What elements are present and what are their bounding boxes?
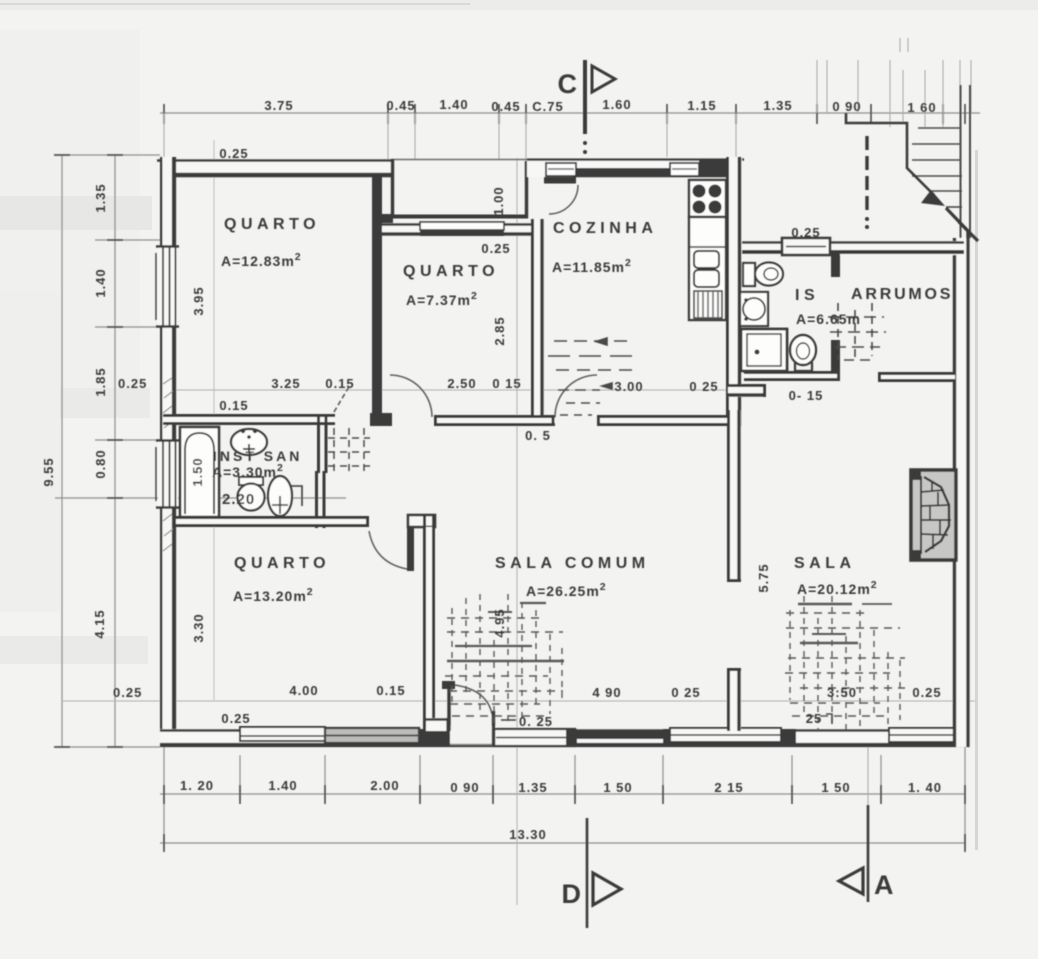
svg-text:3.25: 3.25 — [271, 376, 300, 391]
svg-text:INST SAN: INST SAN — [213, 448, 302, 464]
SALA COMUM dashed grid — [445, 594, 564, 726]
outer top wall left section — [157, 159, 394, 177]
interior dims bathroom — [190, 457, 206, 642]
svg-text:4.95: 4.95 — [492, 608, 507, 637]
svg-text:25: 25 — [806, 711, 822, 726]
kitchen counter — [689, 217, 726, 320]
svg-text:3.75: 3.75 — [264, 98, 293, 113]
svg-text:SALA: SALA — [794, 555, 856, 572]
outer right wall — [953, 232, 970, 747]
interior dims hall line — [219, 376, 718, 443]
svg-text:3.30: 3.30 — [191, 613, 206, 642]
svg-text:COZINHA: COZINHA — [553, 220, 657, 237]
svg-text:A=26.25m2: A=26.25m2 — [526, 581, 607, 599]
wall SALA COMUM / SALA upper — [727, 410, 741, 582]
corridor dashed shelf — [328, 428, 370, 472]
svg-text:2.20: 2.20 — [222, 491, 255, 508]
svg-text:0.15: 0.15 — [325, 376, 354, 391]
kitchen dashed table lines — [548, 338, 638, 415]
kitchen stove — [689, 180, 726, 217]
section marker C — [558, 60, 616, 154]
window right of entrance — [494, 729, 575, 746]
svg-text:1. 40: 1. 40 — [908, 780, 942, 795]
kitchen east wall — [726, 157, 742, 426]
svg-text:1.35: 1.35 — [518, 780, 547, 795]
window left wall 1 — [158, 246, 178, 327]
svg-text:0 15: 0 15 — [492, 376, 521, 391]
svg-text:0.25: 0.25 — [118, 376, 147, 391]
svg-text:0.25: 0.25 — [791, 225, 820, 240]
svg-text:4.15: 4.15 — [92, 609, 107, 638]
interior dims bottom line — [221, 608, 941, 729]
IS window — [782, 238, 830, 255]
svg-text:A=11.85m2: A=11.85m2 — [552, 257, 632, 275]
top row bottom wall: kitchen-salacomum segment — [597, 415, 727, 426]
svg-text:0.25: 0.25 — [912, 685, 941, 700]
svg-text:0. 25: 0. 25 — [519, 714, 553, 729]
partition QUARTO2/COZINHA — [531, 219, 544, 426]
svg-text:D: D — [562, 879, 582, 909]
bathroom bidet — [268, 476, 302, 516]
room label QUARTO1 — [221, 216, 320, 269]
stub wall below IS — [728, 384, 766, 397]
svg-text:1.15: 1.15 — [687, 98, 716, 113]
bottom dimension ticks — [164, 785, 965, 852]
IS shower — [741, 329, 787, 371]
door arc COZINHA — [555, 375, 597, 417]
svg-text:1 50: 1 50 — [821, 780, 850, 795]
left dimension ticks — [54, 155, 123, 747]
svg-text:1.40: 1.40 — [439, 97, 468, 112]
top dimension texts — [264, 97, 936, 115]
top dimension line — [160, 112, 980, 114]
svg-text:3.95: 3.95 — [191, 286, 206, 315]
entrance door (porch to kitchen) — [530, 163, 578, 215]
front entrance opening — [450, 726, 496, 745]
svg-text:1.50: 1.50 — [190, 457, 205, 486]
svg-text:2.00: 2.00 — [370, 778, 399, 793]
IS toilet — [743, 263, 783, 287]
section marker A — [839, 747, 894, 902]
svg-text:2.85: 2.85 — [492, 316, 507, 345]
svg-text:A: A — [874, 870, 894, 900]
top dimension ticks — [164, 104, 965, 124]
svg-text:1.35: 1.35 — [93, 183, 108, 212]
svg-text:QUARTO: QUARTO — [234, 555, 330, 572]
front door of SALA COMUM — [442, 681, 494, 745]
kitchen sink — [694, 251, 719, 287]
ARRUMOS dashed marks — [828, 303, 886, 362]
svg-text:2.50: 2.50 — [447, 376, 476, 391]
interior dims right block — [756, 225, 823, 593]
svg-text:C.75: C.75 — [532, 99, 563, 114]
svg-text:A=12.83m2: A=12.83m2 — [221, 251, 302, 269]
bathroom washbasin — [231, 429, 267, 455]
jamb left of front entrance — [420, 729, 450, 747]
outer bottom wall — [160, 726, 970, 747]
svg-text:A=20.12m2: A=20.12m2 — [797, 579, 878, 597]
svg-text:1.40: 1.40 — [93, 268, 108, 297]
room label IS — [795, 287, 861, 327]
svg-text:C: C — [558, 69, 578, 99]
porch recess — [391, 159, 530, 218]
section marker D — [562, 818, 622, 928]
svg-text:13.30: 13.30 — [509, 827, 547, 842]
svg-text:1 60: 1 60 — [907, 100, 936, 115]
svg-text:0.25: 0.25 — [113, 685, 142, 700]
bottom window 2 (grey sill) — [325, 728, 419, 743]
svg-text:5.75: 5.75 — [756, 563, 771, 592]
room label INST SAN — [212, 448, 302, 508]
kitchen window — [576, 168, 670, 177]
IS second wc — [790, 335, 816, 371]
diagonal wall at stair corner — [946, 208, 978, 241]
top row bottom wall: QUARTO1 segment — [163, 385, 350, 425]
heavy lintel window segment — [577, 730, 663, 739]
outer top wall kitchen section — [527, 157, 744, 177]
svg-text:0.45: 0.45 — [491, 99, 520, 114]
svg-text:1.40: 1.40 — [268, 778, 297, 793]
partition IS/ARRUMOS — [831, 254, 840, 371]
IS bottom wall — [744, 371, 840, 381]
bottom dimension lines — [160, 747, 965, 850]
svg-text:4.00: 4.00 — [289, 683, 318, 698]
section line A dashed at stairs — [865, 136, 869, 229]
ARRUMOS bottom wall — [878, 372, 955, 382]
svg-text:0.15: 0.15 — [219, 398, 248, 413]
bathtub — [180, 427, 219, 517]
svg-text:QUARTO: QUARTO — [403, 263, 499, 280]
room label SALA — [794, 555, 878, 597]
stair direction arrow — [846, 113, 945, 206]
svg-text:4 90: 4 90 — [592, 685, 621, 700]
svg-text:0. 5: 0. 5 — [525, 428, 551, 443]
outer left wall — [156, 157, 179, 747]
svg-text:0.25: 0.25 — [221, 711, 250, 726]
room label QUARTO2 — [403, 263, 499, 308]
svg-text:A=3.30m2: A=3.30m2 — [212, 462, 284, 480]
bottom window 1 — [240, 727, 325, 741]
IS/ARRUMOS block top wall — [741, 238, 964, 255]
svg-text:0- 15: 0- 15 — [789, 388, 824, 403]
svg-text:A=13.20m2: A=13.20m2 — [233, 586, 314, 604]
left dimension lines — [55, 155, 346, 747]
interior dim line y=390 — [160, 389, 741, 391]
SALA dashed grid — [785, 596, 905, 732]
room label QUARTO3 — [233, 555, 330, 604]
QUARTO3 top wall — [176, 516, 369, 527]
partition QUARTO1/QUARTO2 — [370, 177, 393, 426]
top extension lines — [164, 38, 971, 160]
door leaf QUARTO1 (dashed) — [334, 385, 350, 412]
svg-text:0.45: 0.45 — [386, 98, 415, 113]
svg-text:1.35: 1.35 — [763, 98, 792, 113]
svg-text:1.00: 1.00 — [491, 186, 506, 215]
svg-text:A=6.65m: A=6.65m — [796, 311, 861, 327]
svg-text:0 90: 0 90 — [832, 99, 861, 114]
svg-text:0 25: 0 25 — [671, 685, 700, 700]
section trace line C-D through plan — [516, 158, 518, 905]
door QUARTO3: pilaster and leaf — [369, 515, 435, 571]
stairs top right — [912, 85, 970, 238]
bathroom right wall — [317, 415, 327, 528]
top row bottom wall: center segment — [434, 415, 555, 426]
room label COZINHA — [552, 220, 657, 275]
IS washbasin — [740, 292, 768, 326]
svg-text:3.00: 3.00 — [614, 379, 643, 394]
svg-text:SALA COMUM: SALA COMUM — [495, 555, 650, 572]
svg-text:2 15: 2 15 — [714, 780, 743, 795]
svg-text:IS: IS — [795, 287, 819, 304]
QUARTO2 top wall with window — [382, 222, 531, 236]
door arc QUARTO2 — [390, 375, 432, 417]
svg-text:0.25: 0.25 — [219, 146, 248, 161]
bathroom toilet — [238, 477, 265, 511]
svg-text:1.85: 1.85 — [93, 367, 108, 396]
wall QUARTO3 / SALA COMUM — [423, 516, 449, 745]
svg-text:9.55: 9.55 — [41, 457, 56, 486]
window left wall 2 — [158, 440, 178, 508]
svg-text:0 25: 0 25 — [689, 379, 718, 394]
fireplace — [911, 470, 956, 560]
svg-text:0.80: 0.80 — [93, 449, 108, 478]
bottom window 4 — [889, 728, 956, 742]
svg-text:1 50: 1 50 — [603, 780, 632, 795]
bottom dimension texts — [180, 778, 942, 842]
left dimension texts — [41, 183, 147, 700]
svg-text:1.60: 1.60 — [602, 97, 631, 112]
svg-text:A=7.37m2: A=7.37m2 — [406, 290, 478, 308]
bottom window 3 — [670, 728, 781, 742]
svg-text:1. 20: 1. 20 — [180, 778, 214, 793]
svg-text:0.25: 0.25 — [481, 241, 510, 256]
svg-text:ARRUMOS: ARRUMOS — [851, 286, 953, 303]
wall SALA COMUM / SALA lower — [727, 668, 741, 731]
interior dim line y=701 — [62, 700, 975, 702]
interior dims top area — [191, 146, 511, 346]
svg-text:QUARTO: QUARTO — [224, 216, 320, 233]
svg-text:0.15: 0.15 — [376, 683, 405, 698]
svg-text:0 90: 0 90 — [450, 780, 479, 795]
interior reference line x=214 — [213, 140, 215, 700]
room label SALA COMUM — [495, 555, 650, 599]
kitchen drainer — [694, 291, 722, 318]
svg-text:3:50: 3:50 — [827, 685, 857, 700]
